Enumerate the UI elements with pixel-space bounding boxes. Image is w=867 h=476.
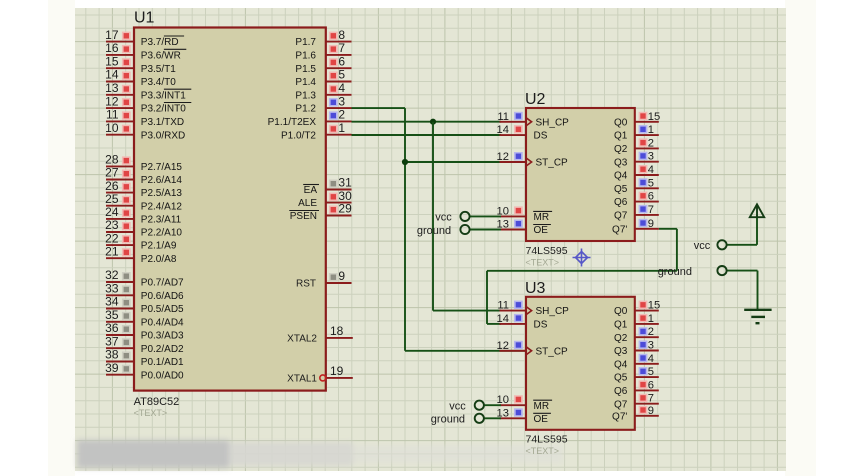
svg-text:P2.1/A9: P2.1/A9 xyxy=(141,241,177,252)
svg-text:P3.1/TXD: P3.1/TXD xyxy=(141,117,184,128)
svg-text:P3.7/RD: P3.7/RD xyxy=(141,37,179,48)
svg-text:SH_CP: SH_CP xyxy=(536,117,570,128)
svg-text:12: 12 xyxy=(497,151,509,163)
svg-text:39: 39 xyxy=(105,361,119,375)
svg-text:6: 6 xyxy=(648,191,654,203)
svg-text:Q4: Q4 xyxy=(614,359,628,370)
U3 left port labels xyxy=(534,306,570,425)
svg-text:2: 2 xyxy=(648,326,654,338)
schematic sheet background grid xyxy=(75,8,786,471)
svg-text:OE: OE xyxy=(534,225,549,236)
svg-text:33: 33 xyxy=(105,282,119,296)
svg-text:P0.4/AD4: P0.4/AD4 xyxy=(141,317,184,328)
svg-text:12: 12 xyxy=(497,340,509,352)
U1 pin numbers P2 (pins 28-21) xyxy=(105,153,119,259)
U1 pin state squares P2 (pins 28-21) xyxy=(122,156,131,164)
U2 left pin numbers xyxy=(497,111,509,231)
svg-text:74LS595: 74LS595 xyxy=(526,245,568,257)
U1 pin state squares 31 30 29 xyxy=(329,180,338,188)
svg-text:U1: U1 xyxy=(134,9,155,26)
ground terminal for U2 OE xyxy=(460,225,469,234)
svg-text:38: 38 xyxy=(105,348,119,362)
svg-text:<TEXT>: <TEXT> xyxy=(134,408,168,418)
svg-text:DS: DS xyxy=(534,131,548,142)
svg-text:1: 1 xyxy=(338,121,345,135)
svg-text:PSEN: PSEN xyxy=(290,211,317,222)
svg-text:vcc: vcc xyxy=(435,212,452,224)
svg-text:RST: RST xyxy=(296,279,316,290)
wire U2 MR to vcc terminal xyxy=(470,215,501,217)
svg-text:OE: OE xyxy=(534,414,549,425)
svg-text:3: 3 xyxy=(648,151,654,163)
svg-text:<TEXT>: <TEXT> xyxy=(526,446,560,456)
svg-text:SH_CP: SH_CP xyxy=(536,306,570,317)
svg-text:<TEXT>: <TEXT> xyxy=(526,257,560,267)
svg-text:P2.4/A12: P2.4/A12 xyxy=(141,201,183,212)
svg-text:Q7: Q7 xyxy=(614,399,628,410)
svg-text:Q3: Q3 xyxy=(614,157,628,168)
svg-text:14: 14 xyxy=(105,68,119,82)
svg-text:6: 6 xyxy=(338,54,345,68)
U1 labels EA ALE PSEN xyxy=(290,185,318,222)
U3 left pin stubs xyxy=(500,311,527,419)
svg-text:36: 36 xyxy=(105,321,119,335)
svg-text:14: 14 xyxy=(497,313,509,325)
svg-text:P1.1/T2EX: P1.1/T2EX xyxy=(268,117,317,128)
U1 pins 31 EA, 30 ALE, 29 PSEN xyxy=(326,190,352,216)
svg-text:7: 7 xyxy=(648,204,654,216)
wire cascade into U3 DS xyxy=(487,323,501,325)
U2 left port labels xyxy=(534,117,570,236)
U1 pin 18 XTAL2 xyxy=(326,337,353,339)
wire U3 MR to vcc terminal xyxy=(484,404,501,406)
wire branch to U3 ST_CP xyxy=(405,350,526,352)
svg-text:Q7': Q7' xyxy=(612,411,627,422)
svg-text:19: 19 xyxy=(330,364,344,378)
svg-text:25: 25 xyxy=(105,192,119,206)
svg-text:17: 17 xyxy=(105,28,119,42)
svg-text:P3.2/INT0: P3.2/INT0 xyxy=(141,104,186,115)
svg-text:P0.1/AD1: P0.1/AD1 xyxy=(141,357,184,368)
svg-text:Q2: Q2 xyxy=(614,144,628,155)
wire net P1.2 -> ST_CP horizontal from U1 pin 3 xyxy=(352,107,406,109)
svg-text:9: 9 xyxy=(648,405,654,417)
svg-text:ground: ground xyxy=(431,414,465,426)
wire net P1.0 -> U2 DS xyxy=(352,134,502,136)
svg-text:21: 21 xyxy=(105,244,119,258)
svg-text:Q5: Q5 xyxy=(614,373,628,384)
U1 pin 19 XTAL1 xyxy=(326,377,353,379)
svg-text:AT89C52: AT89C52 xyxy=(134,396,180,408)
U3 right pin stubs xyxy=(635,311,659,416)
svg-text:Q7': Q7' xyxy=(612,224,627,235)
U1 pin state squares P3 (pins 17-10) xyxy=(122,32,131,40)
power terminal vcc for U2 MR xyxy=(460,212,469,221)
svg-text:4: 4 xyxy=(338,81,345,95)
junction at P1.2 trunk / U2 ST_CP branch xyxy=(402,159,408,165)
junction at P1.1 / SH_CP trunk xyxy=(430,119,436,125)
svg-text:4: 4 xyxy=(648,353,654,365)
svg-text:P2.0/A8: P2.0/A8 xyxy=(141,254,177,265)
wire U2 OE to ground terminal xyxy=(470,229,501,231)
wire net P1.1 -> U2 SH_CP xyxy=(352,121,502,123)
svg-text:23: 23 xyxy=(105,218,119,232)
wire U2 Q7' cascade: right segment xyxy=(659,228,677,230)
svg-text:Q0: Q0 xyxy=(614,117,628,128)
svg-text:Q0: Q0 xyxy=(614,306,628,317)
svg-text:Q1: Q1 xyxy=(614,320,628,331)
svg-text:EA: EA xyxy=(304,185,318,196)
svg-text:15: 15 xyxy=(648,300,660,312)
svg-text:24: 24 xyxy=(105,205,119,219)
svg-text:P0.0/AD0: P0.0/AD0 xyxy=(141,370,184,381)
svg-text:vcc: vcc xyxy=(694,240,711,252)
microcontroller U1 AT89C52 body xyxy=(134,28,326,391)
svg-text:Q2: Q2 xyxy=(614,333,628,344)
svg-text:18: 18 xyxy=(330,324,344,338)
svg-text:4: 4 xyxy=(648,164,654,176)
wire net P1.2 vertical trunk xyxy=(404,108,406,351)
svg-text:ST_CP: ST_CP xyxy=(536,158,569,169)
svg-text:9: 9 xyxy=(338,269,345,283)
svg-text:P0.3/AD3: P0.3/AD3 xyxy=(141,331,184,342)
svg-text:P0.5/AD5: P0.5/AD5 xyxy=(141,304,184,315)
svg-text:26: 26 xyxy=(105,179,119,193)
svg-text:5: 5 xyxy=(338,68,345,82)
ground terminal for U3 OE xyxy=(475,414,484,423)
U1 pin numbers P0 (pins 32-39) xyxy=(105,268,119,375)
wire right ground terminal to ground symbol xyxy=(727,270,758,272)
svg-text:3: 3 xyxy=(648,340,654,352)
svg-text:5: 5 xyxy=(648,366,654,378)
U1 pin state squares P0 (pins 32-39) xyxy=(122,272,131,280)
power terminal vcc (right) xyxy=(717,240,726,249)
ground terminal (right) xyxy=(717,266,726,275)
svg-text:2: 2 xyxy=(338,108,345,122)
svg-text:P1.3: P1.3 xyxy=(295,90,316,101)
power symbol vcc arrow xyxy=(750,204,764,217)
U3 right pin numbers xyxy=(648,300,660,417)
svg-text:U2: U2 xyxy=(525,91,546,108)
svg-text:ST_CP: ST_CP xyxy=(536,346,569,357)
svg-text:P0.6/AD6: P0.6/AD6 xyxy=(141,291,184,302)
U2 left pin stubs xyxy=(500,122,527,230)
svg-text:5: 5 xyxy=(648,177,654,189)
U1 right pin numbers P1 xyxy=(338,28,345,135)
U1 pin numbers 31 30 29 xyxy=(338,176,352,216)
svg-text:1: 1 xyxy=(648,313,654,325)
U3 clock input triangles xyxy=(526,307,532,315)
U1 port name labels P3 (pins 17-10) xyxy=(141,37,186,141)
U1 right pins group P1 (pins 8-1) xyxy=(326,42,352,135)
svg-text:P2.6/A14: P2.6/A14 xyxy=(141,175,183,186)
svg-text:P1.0/T2: P1.0/T2 xyxy=(281,130,316,141)
svg-text:34: 34 xyxy=(105,295,119,309)
U1 left pins group P0 (pins 32-39) xyxy=(106,282,134,375)
svg-text:P1.7: P1.7 xyxy=(295,37,316,48)
svg-text:XTAL2: XTAL2 xyxy=(287,334,317,345)
wire vertical trunk to U3 SH_CP xyxy=(432,122,434,311)
svg-text:16: 16 xyxy=(105,41,119,55)
svg-text:Q3: Q3 xyxy=(614,346,628,357)
svg-text:14: 14 xyxy=(497,124,509,136)
wire cascade vertical down xyxy=(676,229,678,271)
wire right vcc terminal to power symbol xyxy=(727,244,757,246)
svg-text:29: 29 xyxy=(338,202,352,216)
U1 port name labels P2 (pins 28-21) xyxy=(141,162,183,265)
U1 pin 9 RST xyxy=(326,282,352,284)
svg-text:P2.3/A11: P2.3/A11 xyxy=(141,215,182,226)
svg-text:27: 27 xyxy=(105,166,119,180)
svg-text:P3.5/T1: P3.5/T1 xyxy=(141,64,176,75)
svg-text:37: 37 xyxy=(105,334,119,348)
watermark blur patch xyxy=(77,440,563,468)
svg-text:P3.6/WR: P3.6/WR xyxy=(141,51,181,62)
svg-text:13: 13 xyxy=(105,81,119,95)
U1 port name labels P0 (pins 32-39) xyxy=(141,278,184,382)
svg-text:P0.7/AD7: P0.7/AD7 xyxy=(141,278,184,289)
svg-text:ground: ground xyxy=(658,266,692,278)
svg-text:Q6: Q6 xyxy=(614,386,628,397)
page margin bands xyxy=(48,0,75,476)
svg-text:P0.2/AD2: P0.2/AD2 xyxy=(141,344,184,355)
svg-text:DS: DS xyxy=(534,320,548,331)
wire cascade vertical to U3 DS row xyxy=(486,271,488,324)
svg-text:15: 15 xyxy=(105,54,119,68)
U2 clock input triangles xyxy=(526,118,532,126)
wire U3 OE to ground terminal xyxy=(484,417,501,419)
U1 pin numbers P3 (pins 17-10) xyxy=(105,28,119,135)
svg-text:ALE: ALE xyxy=(298,198,317,209)
U2 right pin numbers xyxy=(648,111,660,230)
blue origin marker near U2 74LS595 label xyxy=(573,249,591,267)
svg-text:74LS595: 74LS595 xyxy=(526,434,568,446)
svg-text:1: 1 xyxy=(648,124,654,136)
U3 right port labels Q0-Q7' xyxy=(612,306,628,422)
svg-text:28: 28 xyxy=(105,153,119,167)
wire branch into U3 SH_CP xyxy=(433,310,501,312)
svg-text:11: 11 xyxy=(106,108,119,122)
U3 left pin state squares xyxy=(514,301,523,309)
wire branch to U2 ST_CP xyxy=(405,161,501,163)
svg-text:7: 7 xyxy=(648,393,654,405)
shift register U2 74LS595 body xyxy=(526,108,635,241)
svg-text:P1.5: P1.5 xyxy=(295,64,316,75)
svg-text:8: 8 xyxy=(338,28,345,42)
svg-text:6: 6 xyxy=(648,379,654,391)
svg-text:22: 22 xyxy=(105,231,119,245)
power terminal vcc for U3 MR xyxy=(475,401,484,410)
svg-text:9: 9 xyxy=(648,218,654,230)
svg-text:35: 35 xyxy=(105,308,119,322)
U3 right pin state squares xyxy=(639,301,648,309)
wire cascade long horizontal xyxy=(487,270,677,272)
U3 left pin numbers xyxy=(497,300,509,420)
U2 right port labels Q0-Q7' xyxy=(612,117,628,235)
svg-text:32: 32 xyxy=(105,268,119,282)
U2 right pin state squares xyxy=(639,112,648,120)
U2 left pin state squares xyxy=(514,112,523,120)
shift register U3 74LS595 body xyxy=(526,297,635,430)
svg-text:31: 31 xyxy=(338,176,352,190)
U1 port labels P1.x xyxy=(268,37,317,141)
U1 left pins group P3 (pins 17-10) xyxy=(106,42,134,135)
svg-text:P1.4: P1.4 xyxy=(295,77,316,88)
svg-text:Q7: Q7 xyxy=(614,211,628,222)
svg-text:P3.0/RXD: P3.0/RXD xyxy=(141,130,185,141)
svg-text:P1.6: P1.6 xyxy=(295,51,316,62)
svg-text:12: 12 xyxy=(105,94,119,108)
svg-text:P3.4/T0: P3.4/T0 xyxy=(141,77,176,88)
svg-text:15: 15 xyxy=(648,111,660,123)
svg-text:U3: U3 xyxy=(525,280,546,297)
svg-text:7: 7 xyxy=(338,41,345,55)
svg-text:P2.5/A13: P2.5/A13 xyxy=(141,188,183,199)
svg-text:P2.2/A10: P2.2/A10 xyxy=(141,228,183,239)
svg-text:P2.7/A15: P2.7/A15 xyxy=(141,162,183,173)
svg-text:30: 30 xyxy=(338,189,352,203)
svg-text:XTAL1: XTAL1 xyxy=(287,374,317,385)
svg-text:MR: MR xyxy=(534,212,550,223)
svg-text:P1.2: P1.2 xyxy=(295,104,316,115)
svg-text:ground: ground xyxy=(417,225,451,237)
svg-text:11: 11 xyxy=(497,300,509,312)
svg-text:3: 3 xyxy=(338,94,345,108)
svg-text:11: 11 xyxy=(497,111,509,123)
svg-text:vcc: vcc xyxy=(449,401,466,413)
svg-text:2: 2 xyxy=(648,137,654,149)
svg-text:10: 10 xyxy=(105,121,119,135)
U1 left pins group P2 (pins 28-21) xyxy=(106,166,134,258)
svg-text:Q6: Q6 xyxy=(614,197,628,208)
svg-text:Q5: Q5 xyxy=(614,184,628,195)
svg-text:P3.3/INT1: P3.3/INT1 xyxy=(141,90,186,101)
svg-text:MR: MR xyxy=(534,401,550,412)
red marker at XTAL1 pin xyxy=(320,375,326,381)
svg-text:Q4: Q4 xyxy=(614,171,628,182)
ground symbol xyxy=(744,310,771,323)
U1 right pin state squares P1 xyxy=(329,32,338,40)
svg-text:Q1: Q1 xyxy=(614,131,628,142)
U2 right pin stubs xyxy=(635,122,659,229)
